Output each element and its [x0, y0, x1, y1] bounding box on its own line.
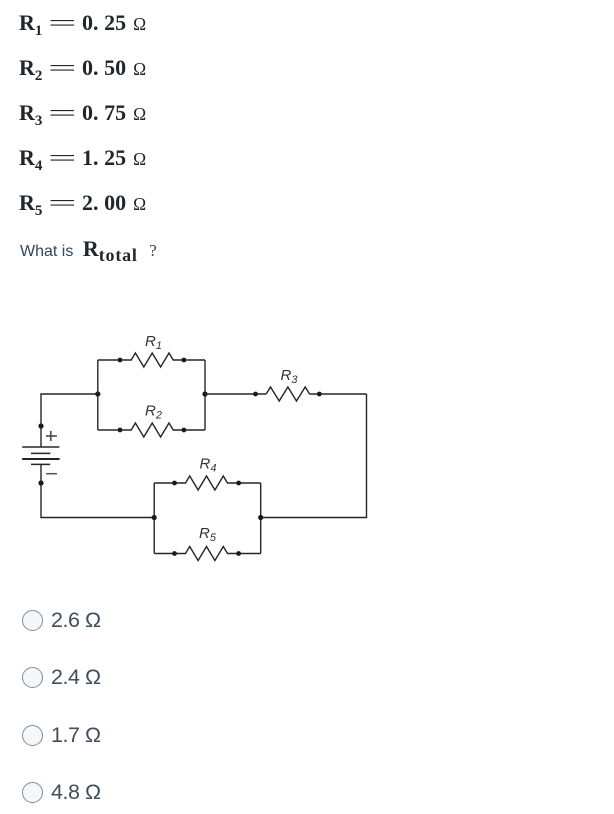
equation R5 — [19, 192, 146, 215]
question line — [20, 236, 157, 265]
wire parallel block 1 right vertical — [204, 360, 206, 430]
resistor R5 terminal dots — [172, 551, 241, 556]
option 2 — [21, 666, 23, 668]
battery plus label — [46, 431, 57, 441]
battery B1 plate short bottom — [31, 463, 50, 465]
resistor R5 — [154, 547, 261, 561]
option 1 — [21, 609, 23, 611]
battery B1 plate long thick — [22, 458, 59, 460]
resistor R1 terminal dots — [118, 358, 187, 363]
resistor R1 — [98, 353, 205, 367]
node B junction dot — [202, 391, 207, 396]
option 4 — [21, 781, 23, 783]
junction dot battery positive stem — [38, 423, 43, 428]
equation R2 — [19, 57, 146, 80]
resistor R3 — [266, 387, 309, 401]
wire node B to R3 — [205, 393, 266, 395]
resistor R2 terminal dots — [118, 428, 187, 433]
equation R1 — [19, 12, 146, 35]
wire parallel block 2 right vertical — [260, 483, 262, 554]
svg-text:R2: R2 — [145, 403, 162, 422]
equation R3 — [19, 102, 146, 125]
wire battery top to node A — [41, 394, 98, 447]
node C junction dot — [258, 515, 263, 520]
resistor R4 terminal dots — [172, 481, 241, 486]
resistor R3 terminal dots — [253, 392, 322, 397]
option 3 — [21, 724, 23, 726]
wire battery bottom to node D — [41, 465, 154, 518]
battery minus label — [46, 473, 57, 475]
equation R4 — [19, 147, 146, 170]
node A junction dot — [95, 391, 100, 396]
svg-text:R1: R1 — [145, 333, 162, 352]
svg-text:R5: R5 — [199, 525, 217, 544]
svg-text:R3: R3 — [281, 367, 299, 386]
resistor R2 — [98, 423, 205, 437]
wire right side down — [261, 394, 367, 518]
battery B1 plate short — [31, 452, 50, 454]
junction dot battery negative stem — [38, 480, 43, 485]
svg-text:R4: R4 — [200, 456, 217, 475]
wire parallel block 1 left vertical — [97, 360, 99, 430]
resistor R4 — [154, 476, 261, 490]
wire parallel block 2 left vertical — [153, 483, 155, 554]
wire R3 to right corner — [310, 393, 367, 395]
node D junction dot — [152, 515, 157, 520]
battery B1 plate long top — [22, 446, 59, 448]
